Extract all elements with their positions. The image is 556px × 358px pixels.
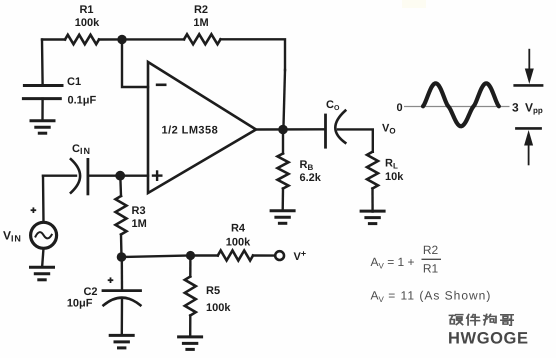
- node C junction dot: [117, 252, 127, 262]
- svg-text:3: 3: [512, 101, 519, 115]
- wire R1 to node A: [99, 38, 184, 40]
- resistor R1: [65, 35, 99, 44]
- wire C1 to ground: [41, 99, 43, 120]
- node A junction dot: [117, 35, 126, 44]
- wire node C to node D: [122, 256, 191, 258]
- wire Cin to node B: [89, 174, 120, 176]
- capacitor C2: [103, 289, 141, 292]
- wire Vin to ground: [42, 248, 43, 266]
- char gou (dog): [484, 314, 496, 324]
- char ying (hard): [450, 315, 463, 325]
- plus sign above C2: [108, 277, 114, 283]
- wire vertical down to output node: [283, 70, 285, 130]
- voltage source VIN circle: [31, 222, 57, 248]
- resistor RL: [367, 152, 378, 189]
- wire R3 to node C: [120, 235, 123, 258]
- wire R2 to top-right corner: [221, 39, 286, 70]
- wire output node down to RB: [282, 130, 284, 154]
- svg-text:10μF: 10μF: [67, 298, 93, 310]
- svg-text:100k: 100k: [75, 17, 100, 29]
- resistor RB: [278, 154, 289, 189]
- svg-text:100k: 100k: [206, 302, 231, 314]
- op-amp plus sign: [152, 170, 163, 181]
- wire output to Co: [256, 128, 324, 131]
- char jian (piece): [467, 314, 480, 325]
- op-amp minus sign: [156, 84, 167, 87]
- wire R5 to ground: [189, 316, 192, 337]
- output node dot: [278, 125, 288, 135]
- svg-text:R2: R2: [423, 243, 439, 257]
- wire RB to ground: [282, 189, 285, 211]
- wire C2 to ground: [121, 299, 124, 336]
- resistor R4: [218, 251, 253, 261]
- ground G1 under C1: [30, 121, 56, 134]
- wire node A down to inverting input: [122, 40, 148, 88]
- plus sign above VIN: [31, 207, 37, 213]
- ground G6 under RL: [360, 211, 386, 224]
- svg-text:C1: C1: [67, 76, 81, 88]
- svg-text:R3: R3: [132, 205, 146, 217]
- svg-text:C2: C2: [83, 286, 97, 298]
- sine symbol inside VIN: [36, 232, 52, 238]
- wire node D down to R5: [189, 256, 191, 277]
- wire R4 to V+ terminal: [253, 254, 275, 257]
- wire node B down to R3: [119, 176, 122, 196]
- output sine waveform: [423, 83, 499, 126]
- svg-text:R4: R4: [231, 223, 246, 235]
- resistor R5: [185, 277, 196, 316]
- wire node C down to C2: [121, 257, 124, 289]
- svg-text:100k: 100k: [226, 237, 251, 249]
- svg-text:AV = 1 +: AV = 1 +: [371, 255, 415, 271]
- wire Co to Vo corner: [338, 129, 373, 151]
- resistor R3: [116, 196, 127, 235]
- svg-text:1M: 1M: [193, 17, 208, 29]
- capacitor C1: [23, 86, 62, 99]
- wire node B to non-inverting input: [120, 174, 148, 176]
- watermark CJK 硬件狗哥 (hand-drawn strokes): [450, 314, 514, 325]
- wire Vin stem top: [42, 176, 45, 223]
- op-amp U1 1/2 LM358: [148, 62, 256, 193]
- capacitor Cin: [71, 159, 80, 193]
- wire RL to ground: [371, 189, 374, 212]
- capacitor Co: [324, 115, 327, 147]
- ground G3 under C2: [109, 335, 135, 348]
- svg-text:0.1μF: 0.1μF: [68, 95, 97, 107]
- svg-text:1M: 1M: [132, 218, 147, 230]
- wire left branch down to C1: [41, 40, 44, 85]
- wire node D to R4: [191, 254, 218, 256]
- char ge (brother): [501, 315, 513, 325]
- ground G5 under RB: [270, 211, 296, 224]
- svg-text:6.2k: 6.2k: [300, 172, 322, 184]
- formula Av = 1 + R2/R1: [371, 243, 442, 276]
- svg-text:AV = 11 (As Shown): AV = 11 (As Shown): [371, 289, 492, 305]
- dimension arrow top (down): [513, 49, 543, 86]
- node B junction dot: [115, 171, 125, 181]
- svg-text:1/2 LM358: 1/2 LM358: [162, 125, 219, 137]
- svg-text:R2: R2: [194, 4, 208, 16]
- svg-text:R1: R1: [423, 262, 439, 276]
- ground G2 under VIN: [29, 267, 55, 280]
- wire Vin to Cin: [43, 174, 76, 176]
- dimension arrow bottom (up): [515, 128, 542, 165]
- svg-text:HWGOGE: HWGOGE: [448, 330, 529, 348]
- svg-text:R5: R5: [206, 285, 220, 297]
- wire top rail left segment: [42, 38, 65, 40]
- terminal V+ circle: [275, 251, 284, 260]
- ground G4 under R5: [177, 337, 203, 350]
- sine axis zero line: [404, 106, 510, 108]
- node D junction dot: [186, 251, 195, 260]
- resistor R2: [184, 34, 221, 44]
- svg-text:10k: 10k: [385, 171, 404, 183]
- svg-text:0: 0: [397, 102, 403, 114]
- svg-text:R1: R1: [79, 4, 93, 16]
